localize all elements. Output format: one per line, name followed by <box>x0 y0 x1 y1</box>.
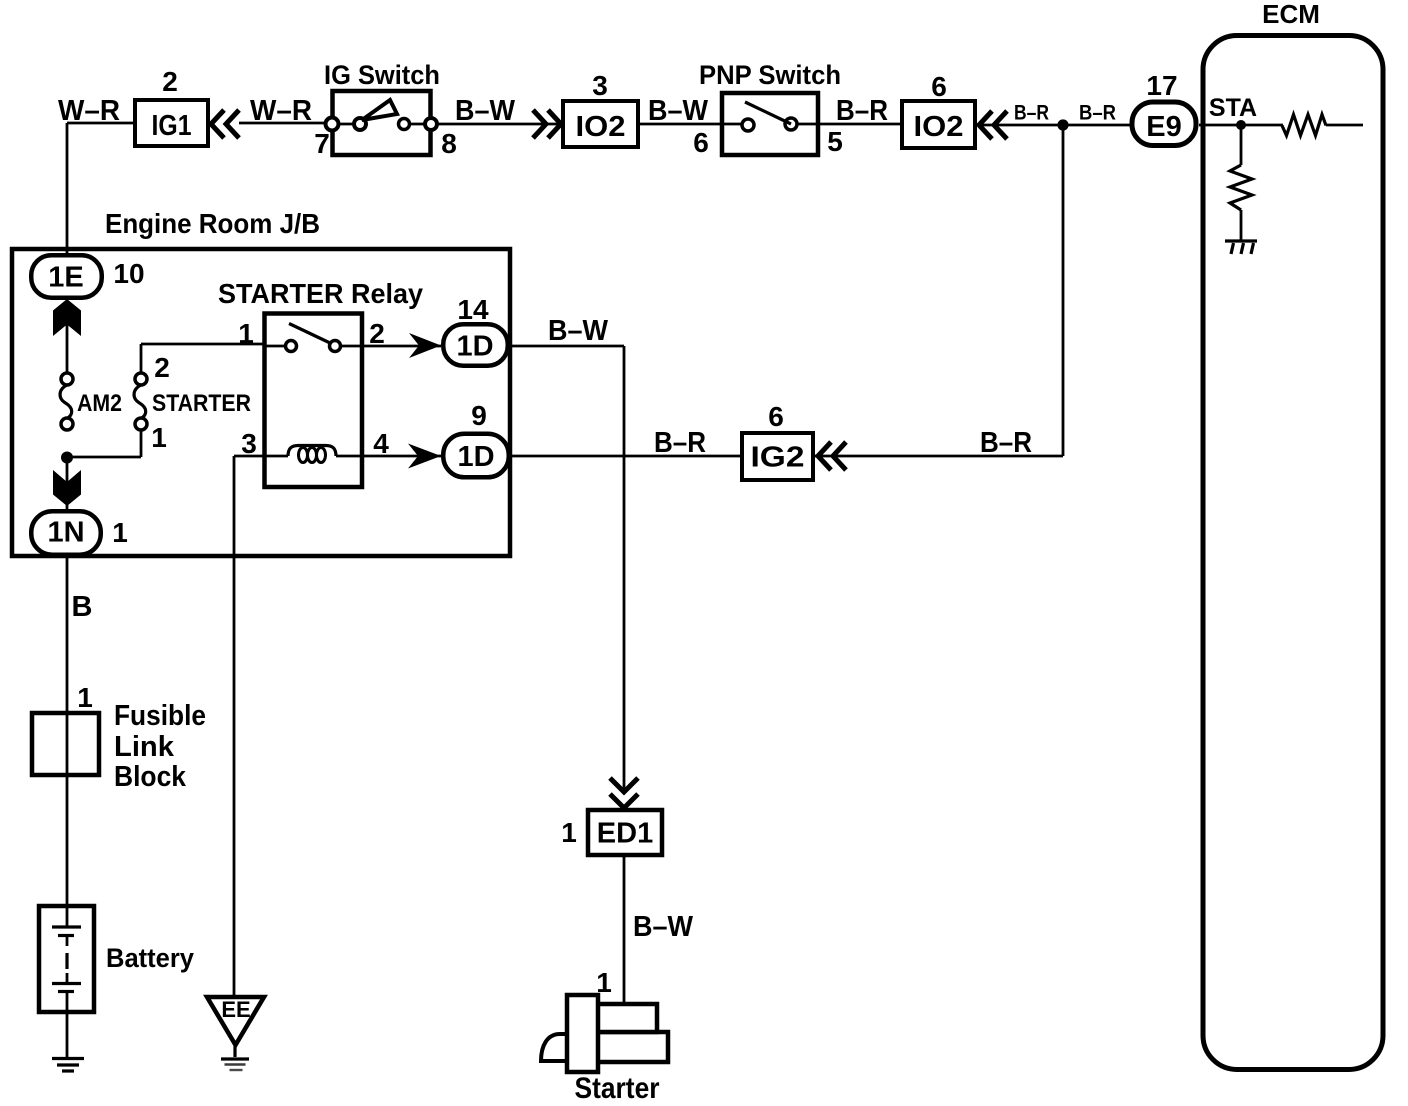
svg-text:3: 3 <box>592 70 608 101</box>
svg-text:14: 14 <box>457 294 489 325</box>
svg-text:1: 1 <box>112 517 128 548</box>
svg-text:IO2: IO2 <box>576 111 626 143</box>
svg-text:2: 2 <box>162 66 178 97</box>
svg-text:Fusible: Fusible <box>114 700 206 732</box>
svg-text:B: B <box>72 591 93 623</box>
svg-text:W–R: W–R <box>58 95 120 127</box>
svg-text:1: 1 <box>151 422 167 453</box>
svg-text:PNP Switch: PNP Switch <box>699 60 841 90</box>
svg-text:Engine Room J/B: Engine Room J/B <box>105 208 320 239</box>
svg-text:B–R: B–R <box>1014 102 1049 125</box>
svg-text:Link: Link <box>114 731 175 763</box>
svg-text:E9: E9 <box>1146 111 1181 143</box>
svg-text:1: 1 <box>77 682 93 713</box>
svg-text:STA: STA <box>1209 94 1257 122</box>
svg-text:B–R: B–R <box>1079 102 1116 125</box>
svg-text:B–R: B–R <box>654 427 706 459</box>
svg-text:Block: Block <box>114 761 187 793</box>
svg-text:1N: 1N <box>47 517 84 549</box>
svg-text:6: 6 <box>931 71 947 102</box>
svg-text:IG Switch: IG Switch <box>324 60 440 90</box>
svg-text:ECM: ECM <box>1262 0 1320 29</box>
svg-text:AM2: AM2 <box>77 390 122 417</box>
svg-text:1: 1 <box>561 817 577 848</box>
svg-text:1: 1 <box>596 967 612 998</box>
svg-text:ED1: ED1 <box>597 818 653 850</box>
svg-text:STARTER Relay: STARTER Relay <box>218 278 423 309</box>
svg-text:2: 2 <box>154 352 170 383</box>
svg-text:B–W: B–W <box>455 95 516 127</box>
svg-text:IG1: IG1 <box>152 110 192 142</box>
svg-text:B–R: B–R <box>980 427 1032 459</box>
svg-text:1: 1 <box>238 318 254 349</box>
svg-text:1D: 1D <box>457 441 494 473</box>
svg-text:9: 9 <box>471 400 487 431</box>
svg-text:6: 6 <box>693 127 709 158</box>
svg-text:W–R: W–R <box>250 95 312 127</box>
svg-text:4: 4 <box>373 428 389 459</box>
svg-text:1D: 1D <box>456 331 493 363</box>
svg-text:EE: EE <box>221 997 250 1022</box>
svg-text:IO2: IO2 <box>914 111 964 143</box>
svg-text:B–W: B–W <box>548 315 609 347</box>
svg-text:STARTER: STARTER <box>152 390 251 417</box>
svg-text:17: 17 <box>1146 70 1177 101</box>
svg-text:Starter: Starter <box>575 1072 660 1105</box>
svg-text:5: 5 <box>827 126 843 157</box>
svg-text:B–W: B–W <box>648 95 709 127</box>
svg-text:Battery: Battery <box>106 943 194 973</box>
svg-text:3: 3 <box>241 428 257 459</box>
svg-text:B–W: B–W <box>633 911 694 943</box>
svg-text:2: 2 <box>369 318 385 349</box>
svg-text:B–R: B–R <box>836 95 888 127</box>
svg-text:1E: 1E <box>48 262 83 294</box>
svg-text:7: 7 <box>314 128 330 159</box>
svg-text:IG2: IG2 <box>751 442 805 474</box>
svg-text:8: 8 <box>441 128 457 159</box>
svg-text:6: 6 <box>768 401 784 432</box>
svg-text:10: 10 <box>113 258 144 289</box>
